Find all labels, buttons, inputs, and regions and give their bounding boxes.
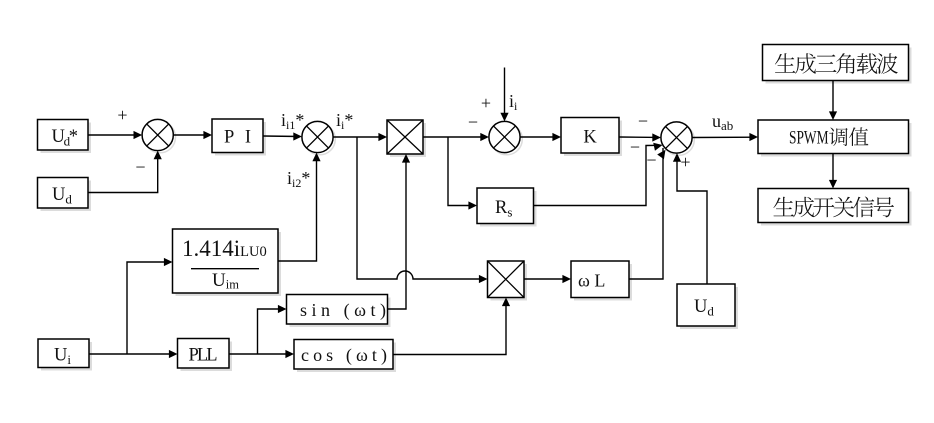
summing junction S3 (ii*-ii) bbox=[489, 121, 522, 154]
svg-text:−: − bbox=[135, 157, 145, 177]
multiplier M1 bbox=[387, 120, 426, 157]
block Ui (grid voltage input) bbox=[38, 339, 92, 371]
wire K to S4 bbox=[619, 133, 661, 141]
wire Ui to PLL bbox=[89, 350, 178, 358]
wire ii input drop bbox=[500, 68, 508, 122]
wire S4 to SPWM (uab) bbox=[692, 133, 758, 141]
summing junction S4 (uab) bbox=[661, 122, 694, 155]
svg-text:ω L: ω L bbox=[578, 271, 605, 291]
svg-text:Ud*: Ud* bbox=[52, 127, 79, 149]
wire Ud to S1 bottom bbox=[88, 151, 162, 193]
label 生成开关信号 bbox=[773, 196, 894, 217]
wire M2 to wL bbox=[524, 275, 571, 283]
svg-text:+: + bbox=[680, 152, 690, 172]
svg-text:−: − bbox=[468, 112, 478, 132]
svg-text:sin (ωt): sin (ωt) bbox=[300, 300, 386, 321]
block Ud (bottom feedforward) bbox=[677, 284, 738, 329]
wire ii* branch to M2 with crossover hop bbox=[357, 137, 488, 283]
wire PLL branch to sin bbox=[258, 305, 287, 354]
block sin(wt) bbox=[287, 295, 391, 328]
multiplier M2 bbox=[488, 261, 528, 301]
svg-text:+: + bbox=[481, 93, 491, 113]
block PI regulator bbox=[212, 119, 266, 156]
wire S2 to M1 (ii* node) bbox=[333, 133, 387, 141]
block generate triangular carrier bbox=[763, 45, 912, 84]
block Ud (DC voltage feedback) bbox=[38, 178, 92, 212]
block wL gain bbox=[571, 261, 632, 301]
wire SPWM to switch-signal bbox=[829, 154, 837, 189]
label 生成三角载波 bbox=[775, 53, 898, 74]
block 1.414iLu0/Uim gain bbox=[173, 229, 282, 296]
wire branch down to Rs bbox=[448, 137, 477, 210]
wire Ui branch to 1.414 block bbox=[127, 258, 173, 354]
wire 1.414 block to S2 bottom (ii2*) bbox=[278, 153, 321, 261]
svg-text:+: + bbox=[117, 105, 127, 125]
svg-text:−: − bbox=[630, 137, 640, 157]
block SPWM modulation bbox=[758, 120, 912, 157]
svg-text:ii*: ii* bbox=[336, 110, 353, 132]
wire Ud feedforward to S4 bottom bbox=[673, 153, 707, 284]
svg-text:PLL: PLL bbox=[189, 346, 218, 366]
block K gain bbox=[561, 118, 622, 157]
block cos(wt) bbox=[294, 340, 396, 373]
summing junction S1 (Ud*-Ud) bbox=[142, 119, 175, 152]
wire M1 to S3 with Rs branch bbox=[423, 133, 489, 141]
svg-text:K: K bbox=[583, 128, 597, 148]
wire PI to S2 bbox=[263, 132, 302, 140]
wire PLL to cos bbox=[229, 350, 294, 358]
wire Ud* to S1 bbox=[88, 131, 142, 139]
summing junction S2 (ii1*+ii2*) bbox=[302, 121, 335, 154]
wire wL to S4 bbox=[629, 147, 669, 279]
label SPWM调值 bbox=[789, 127, 868, 148]
wire S3 to K bbox=[520, 133, 561, 141]
svg-text:−: − bbox=[646, 150, 656, 170]
wire S1 to PI bbox=[173, 131, 212, 139]
block PLL bbox=[178, 339, 233, 372]
wire cos to M2 bottom bbox=[393, 298, 510, 355]
wire carrier to SPWM bbox=[829, 81, 837, 121]
svg-text:SPWM: SPWM bbox=[789, 128, 829, 149]
block Rs gain bbox=[477, 188, 537, 227]
block generate switching signals bbox=[758, 189, 912, 226]
svg-text:−: − bbox=[638, 111, 648, 131]
block Ud* (DC voltage reference) bbox=[38, 120, 92, 154]
wire sin to M1 bottom bbox=[388, 154, 411, 309]
wire Rs feedback to S4 bbox=[534, 141, 664, 206]
